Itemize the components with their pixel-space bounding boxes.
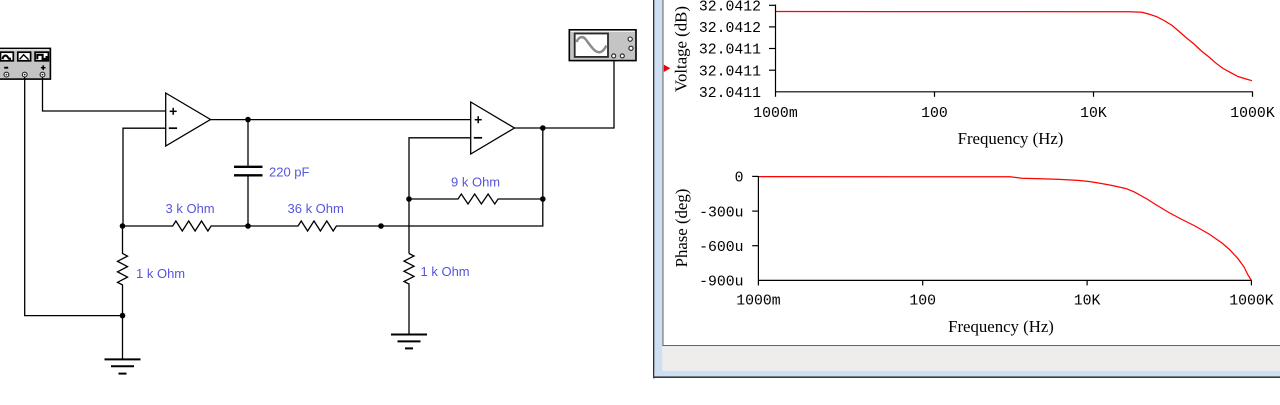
- svg-text:1000m: 1000m: [736, 294, 781, 310]
- svg-text:-600u: -600u: [699, 240, 743, 256]
- svg-text:9 k Ohm: 9 k Ohm: [451, 175, 500, 190]
- voltage plot x tick labels: [753, 106, 1275, 122]
- phase plot x axis title: [948, 317, 1054, 336]
- phase plot axes: [752, 176, 1252, 285]
- resistor R5 1k right: [404, 254, 414, 335]
- op-amp U1: [166, 93, 211, 146]
- svg-text:1000K: 1000K: [1230, 106, 1275, 122]
- svg-text:10K: 10K: [1080, 106, 1107, 122]
- node ground rail junction: [120, 313, 126, 319]
- node U1 output junction: [245, 117, 251, 123]
- ground GND1: [105, 316, 141, 374]
- phase plot y axis title: [672, 189, 691, 268]
- svg-text:220 pF: 220 pF: [269, 165, 310, 180]
- svg-text:-900u: -900u: [699, 275, 743, 291]
- wire U2 output to node D: [381, 128, 543, 226]
- node 9k left junction: [406, 196, 412, 202]
- resistor R4 9k: [409, 194, 543, 204]
- svg-text:32.0412: 32.0412: [699, 21, 761, 37]
- node B junction: [120, 223, 126, 229]
- node 9k right junction: [540, 196, 546, 202]
- svg-text:1 k Ohm: 1 k Ohm: [421, 264, 470, 279]
- red cursor arrow: [664, 65, 671, 72]
- phase plot y tick labels: [699, 171, 743, 291]
- label 9 k Ohm: [451, 175, 500, 190]
- svg-text:Voltage (dB): Voltage (dB): [672, 6, 691, 92]
- node C junction: [245, 223, 251, 229]
- svg-text:32.0411: 32.0411: [699, 43, 761, 59]
- label 1 k Ohm left: [136, 266, 185, 281]
- wire FG plus terminal to U1 noninverting input: [43, 77, 166, 111]
- phase plot x tick labels: [736, 294, 1274, 310]
- svg-text:36 k Ohm: 36 k Ohm: [288, 201, 344, 216]
- svg-text:100: 100: [909, 294, 936, 310]
- wire U2 inverting input feedback: [409, 138, 471, 254]
- svg-text:32.0412: 32.0412: [699, 0, 761, 16]
- capacitor C1 220pF: [234, 120, 263, 226]
- voltage response curve: [776, 12, 1252, 81]
- label 36 k Ohm: [288, 201, 344, 216]
- svg-text:100: 100: [921, 106, 948, 122]
- resistor R3 1k left: [118, 226, 128, 316]
- label 1 k Ohm right: [421, 264, 470, 279]
- resistor R2 36k: [248, 221, 381, 231]
- svg-text:Frequency (Hz): Frequency (Hz): [958, 129, 1064, 148]
- wire U1 inverting input feedback to node B: [123, 128, 166, 226]
- svg-text:Frequency (Hz): Frequency (Hz): [948, 317, 1054, 336]
- phase response curve: [759, 177, 1251, 281]
- svg-text:Phase (deg): Phase (deg): [672, 189, 691, 268]
- ground GND2: [391, 335, 427, 349]
- wire U2 output to oscilloscope: [515, 60, 615, 128]
- resistor R1 3k: [123, 221, 248, 231]
- svg-text:1 k Ohm: 1 k Ohm: [136, 266, 185, 281]
- svg-text:32.0411: 32.0411: [699, 86, 761, 102]
- svg-text:1000m: 1000m: [753, 106, 798, 122]
- function generator XFG1: [0, 48, 50, 79]
- voltage plot x axis title: [958, 129, 1064, 148]
- svg-text:10K: 10K: [1074, 294, 1101, 310]
- label 3 k Ohm: [166, 201, 215, 216]
- wire U1 output to U2 noninverting input: [211, 119, 471, 121]
- voltage plot y axis title: [672, 6, 691, 92]
- node D junction: [378, 223, 384, 229]
- op-amp U2: [471, 102, 515, 154]
- svg-text:-300u: -300u: [699, 205, 743, 221]
- oscilloscope XSC1: [569, 30, 636, 61]
- svg-text:1000K: 1000K: [1229, 294, 1274, 310]
- svg-text:32.0411: 32.0411: [699, 64, 761, 80]
- wire FG common terminal to ground rail: [25, 77, 123, 315]
- svg-text:0: 0: [735, 171, 744, 187]
- node U2 output junction: [540, 125, 546, 131]
- voltage plot y tick labels: [699, 0, 761, 102]
- grapher window frame: [653, 0, 1280, 378]
- voltage plot axes: [769, 5, 1253, 97]
- label 220 pF: [269, 165, 310, 180]
- svg-text:3 k Ohm: 3 k Ohm: [166, 201, 215, 216]
